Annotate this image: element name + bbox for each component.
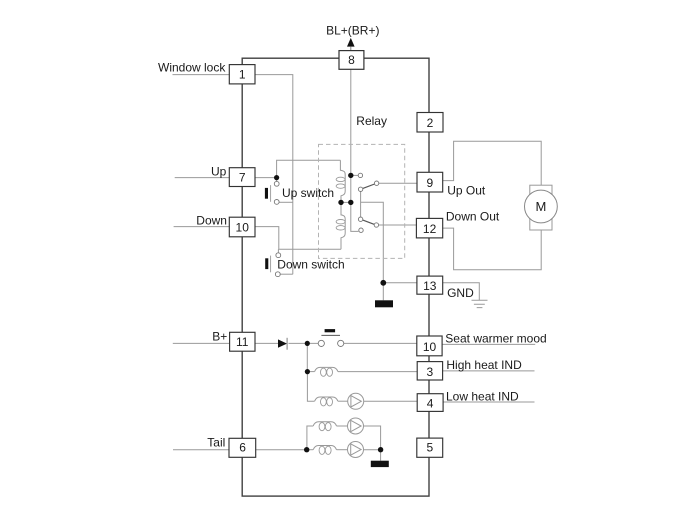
- lamp low heat: [348, 393, 364, 409]
- down switch contact top: [276, 253, 281, 258]
- svg-text:M: M: [535, 199, 546, 214]
- junction tail lamps to ground: [378, 447, 383, 452]
- svg-text:5: 5: [427, 441, 434, 455]
- wire lamp to right corner tail upper: [364, 426, 381, 450]
- svg-text:Up Out: Up Out: [447, 183, 486, 197]
- coil tail upper: [313, 422, 336, 426]
- down switch actuator: [265, 258, 268, 269]
- seat switch contact left: [318, 340, 324, 346]
- svg-text:Relay: Relay: [356, 114, 387, 128]
- relay upper pivot contact: [358, 187, 362, 191]
- relay coil lower: [341, 202, 345, 249]
- svg-text:10: 10: [236, 220, 250, 234]
- svg-text:1: 1: [239, 68, 246, 82]
- wire lamp to tail right dot: [364, 449, 381, 451]
- lower relay arm: [363, 220, 375, 225]
- wire up switch top stub: [276, 178, 278, 182]
- wire seat switch to box10: [344, 342, 417, 344]
- coil tail lower: [313, 446, 336, 450]
- junction power to upper NO contact: [348, 173, 353, 178]
- terminal box 8: [339, 51, 364, 70]
- wire down switch lower stub: [280, 273, 293, 275]
- wire up switch lower stub: [279, 201, 293, 203]
- terminal box 9: [417, 172, 443, 192]
- wire up lead: [175, 177, 230, 179]
- wire power net from box8: [351, 69, 359, 231]
- relay upper NO contact: [358, 173, 362, 177]
- wire high heat label line: [443, 370, 535, 372]
- up switch contact top: [274, 181, 279, 186]
- svg-text:High heat IND: High heat IND: [446, 358, 522, 372]
- svg-text:7: 7: [239, 170, 246, 184]
- svg-text:BL+(BR+): BL+(BR+): [326, 23, 379, 37]
- wire tail lead: [173, 449, 229, 451]
- wire coil to box3: [338, 371, 417, 373]
- svg-text:Window lock: Window lock: [158, 61, 226, 75]
- wire box10 to down coil: [255, 227, 341, 250]
- wire coil mid to power line: [341, 201, 351, 203]
- wire low heat label line: [443, 401, 534, 403]
- relay dashed box: [319, 144, 405, 258]
- svg-text:Down Out: Down Out: [446, 209, 500, 223]
- terminal box 12: [416, 218, 442, 238]
- diode D1: [278, 339, 287, 347]
- terminal box 13: [417, 276, 443, 294]
- lamp tail upper: [348, 418, 364, 434]
- relay lower common contact to pin 12: [374, 223, 378, 227]
- wire high heat row: [307, 371, 314, 373]
- svg-text:6: 6: [239, 441, 246, 455]
- lamp tail lower: [348, 442, 364, 458]
- junction high heat branch: [305, 369, 310, 374]
- svg-text:10: 10: [423, 340, 437, 354]
- svg-text:12: 12: [423, 222, 437, 236]
- wire seat warmer mood label line: [442, 343, 535, 345]
- svg-text:Up switch: Up switch: [282, 186, 334, 200]
- terminal box 5: [417, 438, 443, 457]
- junction B+ branch: [305, 341, 310, 346]
- junction relay ground to box 13: [380, 280, 386, 286]
- wire tail lower branch: [307, 449, 314, 451]
- wire down switch top stub: [277, 249, 279, 253]
- svg-text:Seat warmer mood: Seat warmer mood: [445, 332, 546, 346]
- wire pivot to ground elbow: [361, 202, 384, 300]
- coil high heat: [315, 367, 338, 371]
- wire relay ground to box13: [383, 282, 417, 284]
- main frame: [242, 58, 429, 496]
- up switch contact bottom: [274, 200, 279, 205]
- terminal box 4: [417, 394, 443, 412]
- wire window lock net: [255, 75, 293, 275]
- terminal box 3: [417, 362, 442, 380]
- wire box11 to diode: [255, 342, 278, 344]
- svg-text:Up: Up: [211, 165, 227, 179]
- terminal box 2: [417, 113, 443, 133]
- wire low heat branch: [307, 372, 314, 402]
- seat switch blade: [321, 334, 340, 336]
- wire tail upper branch: [307, 426, 313, 450]
- wire diode to seat switch: [289, 342, 319, 344]
- wire box7 to up switch: [255, 177, 277, 179]
- seat switch actuator: [325, 329, 336, 332]
- svg-text:2: 2: [427, 116, 434, 130]
- terminal box 10 right: [417, 336, 442, 356]
- wire B+ branch down: [306, 343, 308, 371]
- wire upper arm to box9: [379, 182, 417, 184]
- wire down lead: [174, 226, 230, 228]
- junction tail branch: [304, 447, 309, 452]
- wire window lock lead: [173, 74, 230, 76]
- junction at up switch tap: [274, 175, 279, 180]
- wire upper NO stub: [351, 174, 358, 176]
- motor M: [530, 185, 552, 230]
- wire coil to lamp tail lower: [337, 449, 348, 451]
- up switch actuator: [265, 188, 268, 199]
- ground bar relay: [375, 300, 393, 307]
- wire coil to lamp low heat: [338, 400, 348, 402]
- relay coil upper: [340, 160, 345, 202]
- svg-text:B+: B+: [212, 329, 227, 343]
- wire lower arm to box12: [379, 224, 417, 226]
- coil low heat: [315, 397, 338, 401]
- svg-text:GND: GND: [447, 286, 474, 300]
- terminal box 11: [230, 332, 255, 351]
- terminal box 7: [229, 168, 255, 187]
- wire box6 to tail dot: [255, 449, 307, 451]
- svg-text:Down switch: Down switch: [277, 257, 344, 271]
- svg-text:8: 8: [348, 53, 355, 67]
- wire up net to coil top: [277, 160, 341, 177]
- wire lamp to box4: [364, 400, 418, 402]
- wire box12 to motor bottom: [443, 228, 541, 270]
- terminal box 6: [229, 438, 256, 457]
- ground bar tail: [371, 461, 389, 467]
- wire tail dot to ground bar: [380, 450, 382, 461]
- junction coil midpoint: [338, 200, 343, 205]
- wire B+ lead: [173, 342, 230, 344]
- svg-text:Tail: Tail: [207, 436, 225, 450]
- svg-text:9: 9: [426, 176, 433, 190]
- terminal box 10 left: [229, 217, 255, 237]
- BL+ arrow: [347, 38, 355, 47]
- relay upper common contact to pin 9: [374, 181, 378, 185]
- ground earth symbol: [472, 300, 488, 307]
- wire box13 to earth: [443, 283, 479, 301]
- svg-text:4: 4: [427, 397, 434, 411]
- svg-text:Low heat IND: Low heat IND: [446, 389, 519, 403]
- wire coil to lamp tail upper: [337, 425, 348, 427]
- svg-text:3: 3: [427, 365, 434, 379]
- seat switch contact right: [338, 340, 344, 346]
- wire box9 to motor top: [443, 141, 541, 185]
- down switch contact bottom: [275, 272, 280, 277]
- relay lower NO contact: [359, 228, 363, 232]
- svg-text:13: 13: [423, 279, 437, 293]
- svg-text:11: 11: [236, 335, 249, 349]
- relay lower pivot contact: [358, 217, 362, 221]
- terminal box 1: [229, 65, 255, 84]
- junction power line at coil mid: [348, 200, 353, 205]
- svg-text:Down: Down: [196, 214, 227, 228]
- wire pivot ground net: [360, 192, 362, 218]
- upper relay arm: [363, 184, 375, 189]
